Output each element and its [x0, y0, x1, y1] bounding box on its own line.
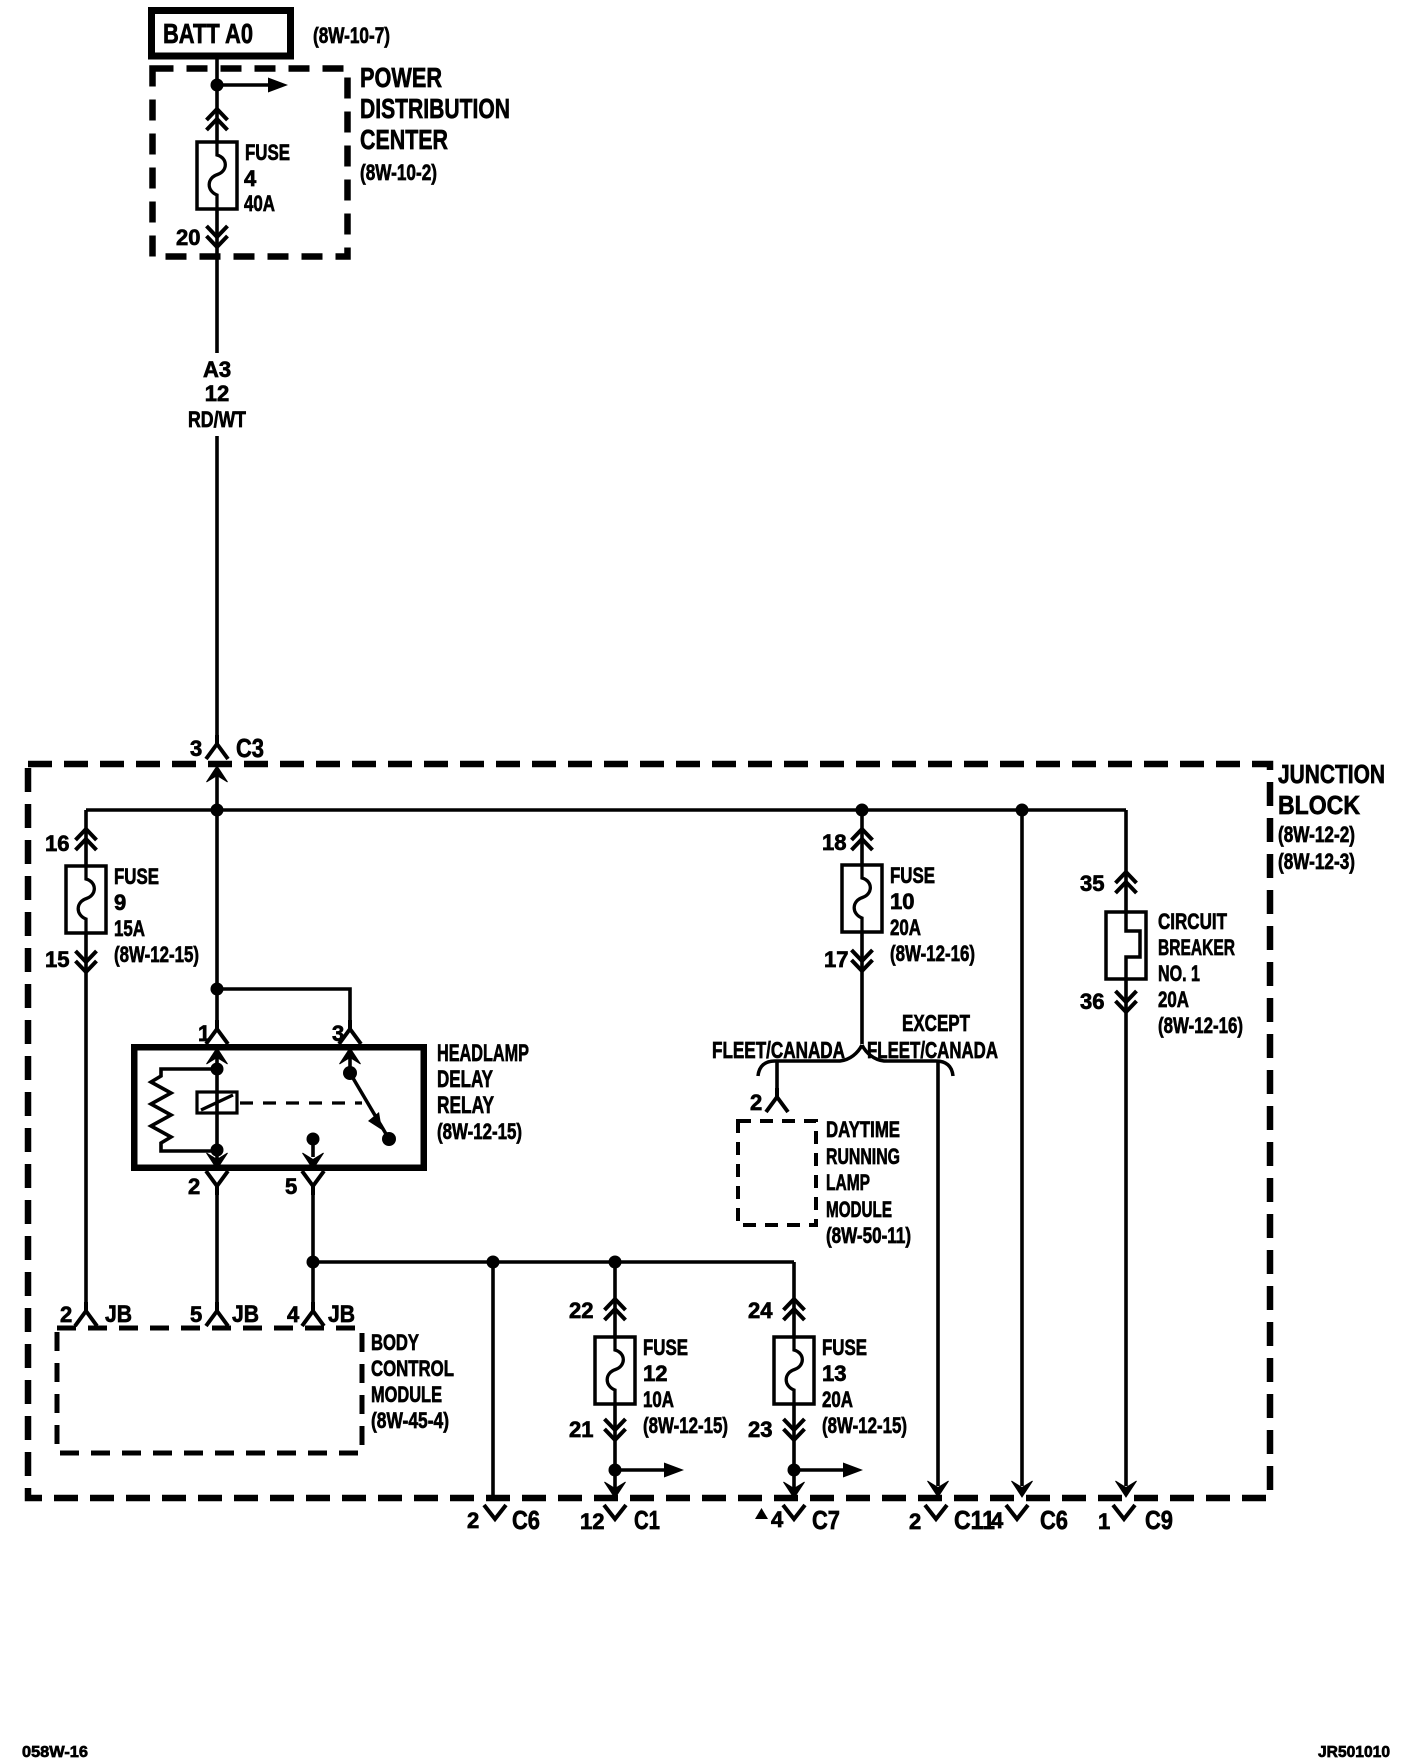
svg-text:10A: 10A: [643, 1387, 674, 1412]
svg-text:35: 35: [1080, 871, 1104, 896]
svg-text:(8W-12-15): (8W-12-15): [437, 1119, 522, 1144]
svg-text:(8W-50-11): (8W-50-11): [826, 1223, 911, 1248]
wire except fleet/canada to C11: [928, 1062, 949, 1497]
DRL pin 2 fork: [766, 1088, 788, 1112]
relay switch blade: [350, 1073, 396, 1146]
connector chevrons pin 21: [605, 1419, 626, 1440]
svg-text:2: 2: [188, 1174, 200, 1199]
svg-text:4: 4: [287, 1302, 300, 1327]
bus wire top: [86, 808, 1126, 812]
junction node fuse 12: [609, 1256, 622, 1269]
JB pin 4 fork: [302, 1302, 324, 1326]
connector C6 right labels: [991, 1505, 1068, 1535]
power distribution center label: [360, 62, 510, 185]
junction node relay feed: [211, 983, 224, 996]
wire PDC to C3: [215, 210, 219, 739]
daytime running lamp module label: [826, 1117, 911, 1248]
connector C7 labels: [755, 1505, 840, 1535]
svg-text:2: 2: [60, 1302, 72, 1327]
fuse F4: [197, 142, 237, 209]
fuse F4 label: [244, 140, 290, 216]
svg-text:C7: C7: [812, 1505, 840, 1535]
svg-text:DAYTIME: DAYTIME: [826, 1117, 900, 1142]
svg-text:NO. 1: NO. 1: [1158, 961, 1200, 986]
relay pin 5 node: [307, 1133, 320, 1146]
svg-text:JB: JB: [105, 1301, 132, 1328]
headlamp delay relay label: [437, 1040, 529, 1144]
svg-text:(8W-12-15): (8W-12-15): [643, 1413, 728, 1438]
svg-text:2: 2: [909, 1509, 921, 1534]
connector C1 labels: [580, 1505, 660, 1535]
junction node main: [211, 804, 224, 817]
connector chevrons pin 35: [1116, 872, 1137, 893]
svg-text:15: 15: [45, 947, 69, 972]
svg-text:9: 9: [114, 890, 126, 915]
relay pin 2 fork: [206, 1171, 228, 1195]
junction node lower bus: [307, 1256, 320, 1269]
svg-text:2: 2: [750, 1090, 762, 1115]
relay pin 1 fork: [206, 1020, 228, 1044]
JB pin 5 fork: [206, 1302, 228, 1326]
wire bus to relay: [215, 810, 219, 1022]
circuit breaker label: [1158, 909, 1243, 1038]
svg-text:(8W-12-2): (8W-12-2): [1278, 822, 1355, 847]
svg-text:C11: C11: [954, 1505, 995, 1535]
svg-text:4: 4: [244, 166, 257, 191]
svg-text:22: 22: [569, 1298, 593, 1323]
relay pin 2 arrow: [207, 1150, 228, 1169]
svg-text:CIRCUIT: CIRCUIT: [1158, 909, 1227, 934]
svg-text:MODULE: MODULE: [371, 1382, 442, 1407]
relay switch pivot: [343, 1066, 357, 1080]
svg-text:C1: C1: [634, 1505, 660, 1535]
svg-text:12: 12: [205, 381, 229, 406]
arrow to other circuits C1: [615, 1463, 684, 1478]
connector chevrons pin 36: [1116, 991, 1137, 1012]
svg-text:4: 4: [771, 1507, 784, 1532]
svg-text:RD/WT: RD/WT: [188, 407, 246, 432]
svg-text:4: 4: [991, 1508, 1004, 1533]
wire fleet/canada to DRL: [775, 1062, 779, 1090]
fuse F10 label: [890, 863, 975, 966]
wire fuse F9 to BCM: [84, 933, 88, 1304]
wire fuse 10 branch: [860, 810, 864, 865]
svg-text:1: 1: [198, 1021, 210, 1046]
svg-text:18: 18: [822, 830, 846, 855]
fuse F13: [774, 1337, 814, 1404]
junction node arrow C1: [609, 1464, 622, 1477]
svg-text:A3: A3: [203, 357, 231, 382]
fuse F13 label: [822, 1335, 907, 1438]
svg-text:C6: C6: [512, 1505, 540, 1535]
svg-text:13: 13: [822, 1361, 846, 1386]
fuse F10: [842, 865, 882, 932]
wire to C6 left: [491, 1262, 495, 1496]
connector C6 left labels: [467, 1505, 540, 1535]
svg-text:3: 3: [190, 736, 202, 761]
connector chevrons pin 22: [605, 1299, 626, 1320]
fleet/canada split brace: [758, 1045, 953, 1076]
wire battery feed: [215, 59, 219, 142]
svg-text:C9: C9: [1145, 1505, 1173, 1535]
svg-text:LAMP: LAMP: [826, 1170, 870, 1195]
svg-text:10: 10: [890, 889, 914, 914]
wire fuse 10 to split: [860, 933, 864, 1044]
headlamp delay relay box: [134, 1047, 424, 1168]
svg-text:(8W-12-16): (8W-12-16): [890, 941, 975, 966]
svg-text:MODULE: MODULE: [826, 1197, 892, 1222]
fuse F12 label: [643, 1335, 728, 1438]
except fleet/canada label: [867, 1010, 998, 1063]
JB pin 2 fork: [75, 1302, 97, 1326]
svg-text:1: 1: [1098, 1509, 1110, 1534]
fuse F9 label: [114, 864, 199, 967]
svg-text:12: 12: [643, 1361, 667, 1386]
svg-text:JB: JB: [232, 1301, 259, 1328]
connector chevrons pin 20: [207, 226, 228, 247]
svg-text:JR501010: JR501010: [1318, 1744, 1390, 1761]
svg-text:FUSE: FUSE: [643, 1335, 688, 1360]
connector arrow C7: [784, 1482, 805, 1498]
svg-text:20A: 20A: [1158, 987, 1189, 1012]
connector C9 labels: [1098, 1505, 1173, 1535]
relay coil junction bottom: [211, 1144, 224, 1157]
svg-text:HEADLAMP: HEADLAMP: [437, 1040, 529, 1067]
svg-text:CONTROL: CONTROL: [371, 1356, 454, 1381]
svg-text:2: 2: [467, 1508, 479, 1533]
relay pin 5 fork: [302, 1171, 324, 1195]
wire circuit breaker to C9: [1116, 979, 1137, 1497]
daytime running lamp module box: [738, 1121, 816, 1225]
svg-text:BREAKER: BREAKER: [1158, 935, 1235, 960]
connector chevrons pin 23: [784, 1419, 805, 1440]
connector C3 fork: [206, 735, 228, 759]
wire bus to C6 right: [1012, 810, 1033, 1497]
fuse F9: [66, 866, 106, 933]
junction node PDC: [211, 79, 224, 92]
wire bus to circuit breaker: [1124, 810, 1128, 912]
svg-text:FLEET/CANADA: FLEET/CANADA: [712, 1037, 845, 1063]
connector chevrons pin 24: [784, 1299, 805, 1320]
arrow feed to other circuits: [217, 78, 288, 93]
junction block label: [1278, 759, 1385, 874]
junction node C6 right: [1016, 804, 1029, 817]
wire fuse 12 branch: [613, 1262, 617, 1337]
svg-text:BLOCK: BLOCK: [1278, 790, 1360, 820]
wire relay pin 2 to BCM: [215, 1193, 219, 1304]
relay coil: [197, 1092, 237, 1113]
svg-text:FUSE: FUSE: [822, 1335, 867, 1360]
svg-text:RELAY: RELAY: [437, 1092, 494, 1119]
lower bus wire: [313, 1260, 794, 1264]
svg-text:21: 21: [569, 1417, 593, 1442]
svg-text:15A: 15A: [114, 916, 145, 941]
wire fuse 13 branch: [792, 1262, 796, 1337]
relay pin 1 arrow: [207, 1048, 228, 1150]
svg-text:12: 12: [580, 1509, 604, 1534]
junction node C6 left: [487, 1256, 500, 1269]
svg-text:17: 17: [824, 947, 848, 972]
connector chevrons pin 15: [76, 951, 97, 972]
connector arrow C1: [605, 1482, 626, 1498]
svg-text:FUSE: FUSE: [114, 864, 159, 889]
connector chevrons pin 16: [76, 829, 97, 850]
svg-text:20: 20: [176, 225, 200, 250]
svg-text:5: 5: [285, 1174, 297, 1199]
arrow to other circuits C7: [794, 1463, 863, 1478]
svg-text:40A: 40A: [244, 191, 275, 216]
svg-text:FLEET/CANADA: FLEET/CANADA: [867, 1037, 998, 1063]
body control module box: [57, 1328, 362, 1453]
relay pin 3 fork: [339, 1020, 361, 1044]
connector C3 arrow: [207, 766, 228, 810]
svg-text:CENTER: CENTER: [360, 124, 448, 155]
wire label A3 12 RD/WT: [188, 357, 246, 432]
relay pin 3 arrow: [340, 1048, 361, 1073]
svg-text:C6: C6: [1040, 1505, 1068, 1535]
svg-text:5: 5: [190, 1302, 202, 1327]
svg-text:20A: 20A: [890, 915, 921, 940]
svg-text:FUSE: FUSE: [245, 140, 290, 165]
svg-text:BODY: BODY: [371, 1330, 419, 1355]
junction node fuse10: [856, 804, 869, 817]
svg-text:(8W-12-15): (8W-12-15): [114, 942, 199, 967]
svg-text:058W-16: 058W-16: [22, 1744, 88, 1761]
wire fuse 13 to C7: [792, 1404, 796, 1497]
svg-text:20A: 20A: [822, 1387, 853, 1412]
svg-text:JB: JB: [328, 1301, 355, 1328]
svg-text:JUNCTION: JUNCTION: [1278, 759, 1385, 789]
body control module label: [371, 1330, 454, 1433]
relay coil junction top: [211, 1063, 224, 1076]
power distribution center box: [153, 69, 348, 257]
connector chevrons in PDC: [207, 109, 228, 130]
svg-text:POWER: POWER: [360, 62, 442, 93]
svg-text:(8W-10-7): (8W-10-7): [313, 23, 390, 48]
connector chevrons pin 17: [852, 950, 873, 971]
svg-text:(8W-10-2): (8W-10-2): [360, 160, 437, 185]
svg-text:FUSE: FUSE: [890, 863, 935, 888]
wire fuse 12 to C1: [613, 1404, 617, 1497]
junction block border: [28, 764, 1270, 1498]
svg-text:DELAY: DELAY: [437, 1066, 493, 1093]
relay pin 5 arrow: [303, 1139, 324, 1169]
svg-text:RUNNING: RUNNING: [826, 1144, 900, 1169]
svg-text:C3: C3: [236, 733, 264, 763]
wire relay pin 5 down: [311, 1193, 315, 1304]
connector C11 labels: [909, 1505, 995, 1535]
relay resistor: [151, 1069, 217, 1151]
svg-text:16: 16: [45, 831, 69, 856]
svg-text:23: 23: [748, 1417, 772, 1442]
relay dashed link: [240, 1101, 362, 1104]
svg-text:36: 36: [1080, 989, 1104, 1014]
svg-text:DISTRIBUTION: DISTRIBUTION: [360, 93, 510, 124]
svg-text:BATT A0: BATT A0: [163, 18, 253, 49]
battery feed box BATT A0: [152, 11, 291, 57]
svg-text:(8W-12-3): (8W-12-3): [1278, 849, 1355, 874]
wire bus to fuse F9: [84, 810, 88, 866]
svg-text:(8W-12-15): (8W-12-15): [822, 1413, 907, 1438]
junction node arrow C7: [788, 1464, 801, 1477]
wire to relay pin 3: [217, 989, 350, 1022]
circuit breaker no. 1: [1106, 912, 1146, 979]
svg-text:(8W-45-4): (8W-45-4): [371, 1408, 449, 1433]
svg-text:3: 3: [332, 1021, 344, 1046]
svg-text:EXCEPT: EXCEPT: [902, 1010, 970, 1036]
fuse F12: [595, 1337, 635, 1404]
svg-text:(8W-12-16): (8W-12-16): [1158, 1013, 1243, 1038]
svg-text:24: 24: [748, 1298, 773, 1323]
connector chevrons pin 18: [852, 829, 873, 850]
